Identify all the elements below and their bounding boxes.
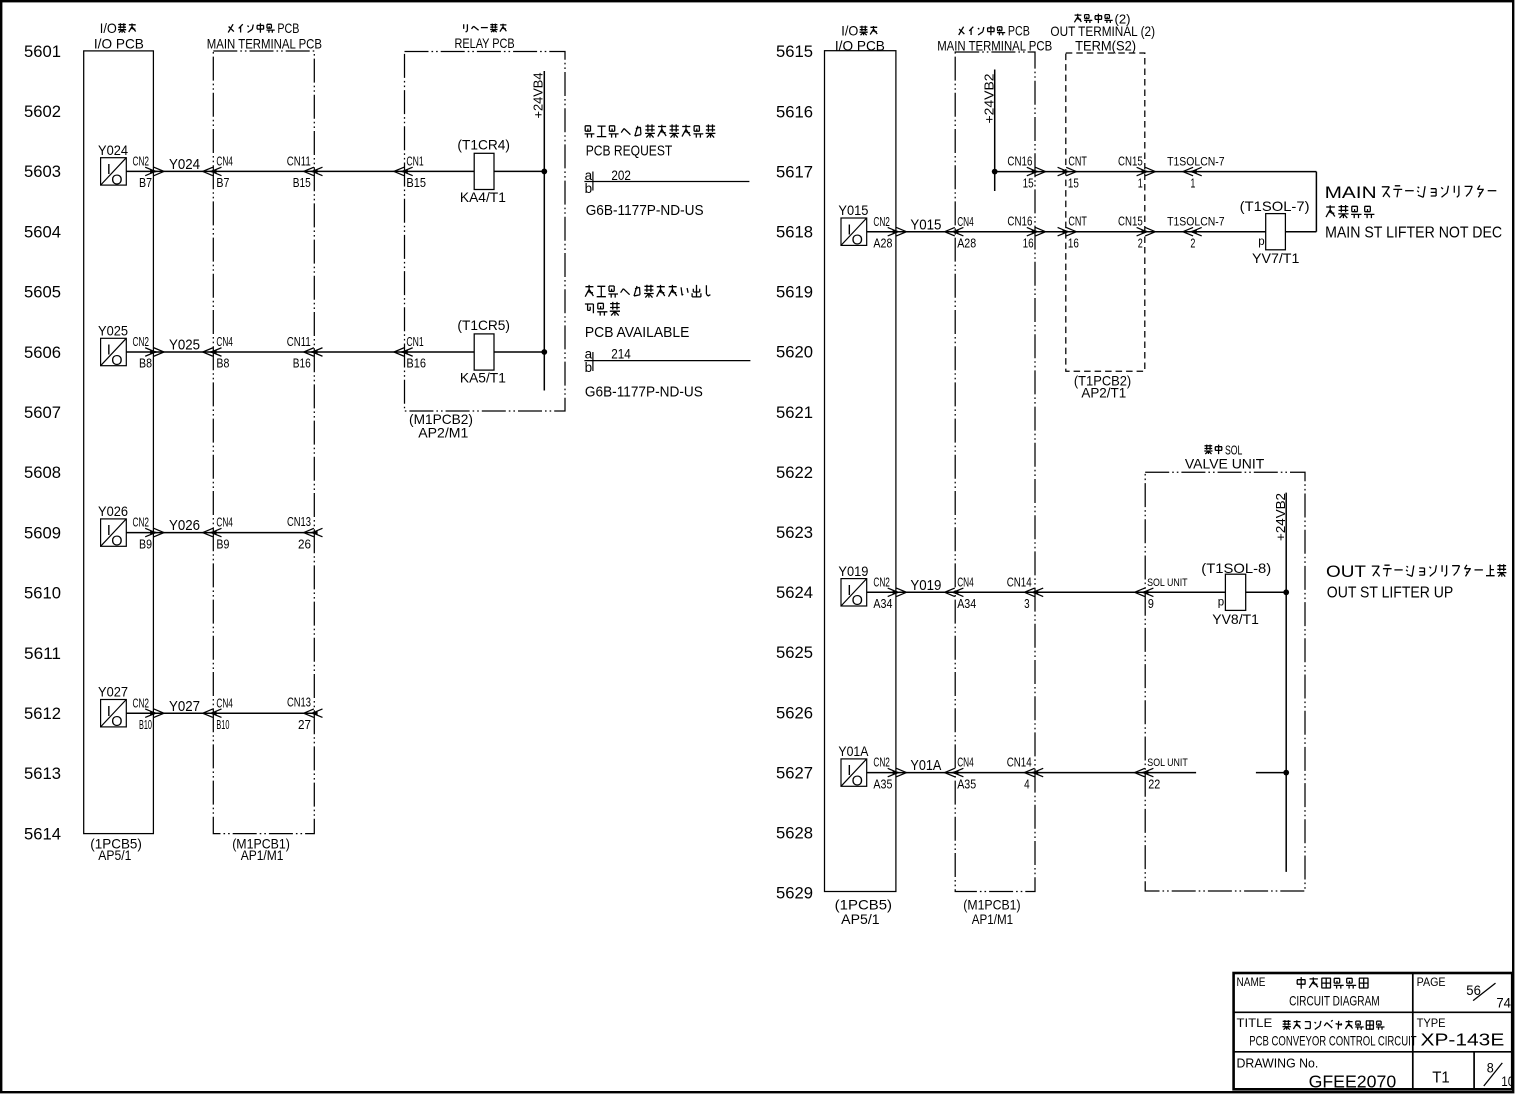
svg-text:p: p: [1218, 597, 1224, 609]
svg-text:AP1/M1: AP1/M1: [241, 847, 284, 863]
svg-text:5613: 5613: [24, 765, 61, 783]
svg-text:B9: B9: [139, 537, 152, 551]
svg-text:MAIN: MAIN: [1325, 183, 1377, 202]
connector CN16 pin 15: [1007, 155, 1045, 191]
svg-text:5619: 5619: [776, 284, 813, 302]
svg-text:PCB REQUEST: PCB REQUEST: [586, 143, 673, 160]
connector CN1 pin B15 (Y024): [394, 155, 426, 191]
title block DRAWING No. field: [1237, 1056, 1397, 1092]
svg-text:5618: 5618: [776, 224, 813, 242]
svg-text:MAIN TERMINAL PCB: MAIN TERMINAL PCB: [937, 37, 1052, 53]
svg-text:CN1: CN1: [406, 335, 423, 349]
svg-text:O: O: [111, 353, 122, 369]
svg-text:5626: 5626: [776, 704, 813, 722]
svg-text:2: 2: [1190, 236, 1195, 250]
svg-text:CN4: CN4: [957, 756, 974, 770]
svg-text:A35: A35: [957, 777, 976, 791]
net label Y026: [169, 517, 200, 534]
net label Y01A: [910, 757, 941, 774]
svg-text:XP-143E: XP-143E: [1421, 1029, 1505, 1049]
svg-text:5601: 5601: [24, 43, 61, 61]
svg-text:5628: 5628: [776, 825, 813, 843]
connector CN2 pin A35 (Y01A): [873, 756, 906, 792]
svg-text:1: 1: [1138, 176, 1143, 190]
svg-text:TITLE: TITLE: [1237, 1016, 1273, 1030]
title block sheet T1 field: [1432, 1069, 1450, 1086]
I/O output symbol Y019: [838, 563, 868, 609]
svg-text:74: 74: [1496, 995, 1511, 1010]
(M1PCB2) AP2/M1 board designator: [409, 411, 473, 441]
I/O output symbol Y025: [98, 323, 128, 369]
svg-text:Y025: Y025: [98, 323, 128, 339]
svg-text:5621: 5621: [776, 404, 813, 422]
svg-text:PCB: PCB: [277, 21, 299, 36]
svg-text:PAGE: PAGE: [1417, 975, 1446, 989]
svg-text:15: 15: [1023, 176, 1034, 190]
svg-text:A28: A28: [957, 236, 976, 250]
connector CN4 pin A35 (Y01A): [945, 756, 977, 792]
svg-text:CN15: CN15: [1118, 215, 1143, 229]
connector CNT pin 15 (row 5617): [1058, 155, 1088, 191]
svg-text:(T1SOL-7): (T1SOL-7): [1240, 198, 1310, 214]
svg-text:B7: B7: [139, 176, 152, 190]
svg-text:5615: 5615: [776, 43, 813, 61]
connector CN4 pin B9 (Y026): [203, 516, 233, 552]
svg-text:CN2: CN2: [873, 215, 890, 229]
svg-text:27: 27: [298, 718, 311, 732]
connector CN14 pin 4: [1007, 756, 1043, 792]
annotation MAIN ST LIFTER (Japanese line1): [1325, 183, 1497, 202]
title block PAGE field: [1417, 975, 1512, 1010]
svg-text:5623: 5623: [776, 524, 813, 542]
svg-text:OUT: OUT: [1326, 562, 1366, 581]
svg-text:5622: 5622: [776, 464, 813, 482]
I/O PCB header (right): [835, 23, 885, 54]
RELAY PCB box: [405, 52, 566, 412]
svg-text:PCB CONVEYOR CONTROL CIRCUIT: PCB CONVEYOR CONTROL CIRCUIT: [1249, 1033, 1417, 1049]
svg-text:+24VB4: +24VB4: [531, 73, 546, 119]
svg-text:CN2: CN2: [873, 756, 890, 770]
svg-text:26: 26: [298, 537, 311, 551]
(1PCB5) AP5/1 board designator (left): [90, 835, 142, 863]
svg-text:YV7/T1: YV7/T1: [1252, 250, 1300, 266]
svg-text:A34: A34: [873, 597, 892, 611]
svg-text:Y01A: Y01A: [910, 757, 941, 774]
svg-text:1: 1: [1190, 176, 1195, 190]
svg-text:PCB: PCB: [1008, 24, 1030, 39]
svg-text:VALVE UNIT: VALVE UNIT: [1185, 456, 1265, 472]
svg-text:T1: T1: [1432, 1069, 1450, 1086]
power rail +24VB4: [531, 71, 546, 391]
svg-text:10: 10: [1501, 1074, 1514, 1089]
svg-text:CNT: CNT: [1068, 215, 1087, 229]
connector CN4 pin B10 (Y027): [203, 696, 233, 732]
svg-text:5603: 5603: [24, 163, 61, 181]
I/O PCB header (left): [94, 20, 144, 51]
svg-text:5625: 5625: [776, 644, 813, 662]
svg-text:B15: B15: [406, 176, 426, 190]
svg-text:CN14: CN14: [1007, 575, 1032, 589]
annotation MAIN ST LIFTER (Japanese line2): [1326, 205, 1374, 218]
annotation OUT ST LIFTER UP (Japanese): [1326, 562, 1506, 581]
wire Y019 row 5624: [867, 591, 1286, 593]
net label Y015: [910, 216, 941, 233]
connector CN4 pin B8 (Y025): [203, 335, 233, 371]
net label Y019: [910, 577, 941, 594]
svg-text:p: p: [1258, 236, 1264, 248]
svg-text:5611: 5611: [24, 645, 61, 663]
relay coil KA4/T1 (T1CR4): [457, 137, 510, 206]
svg-text:G6B-1177P-ND-US: G6B-1177P-ND-US: [586, 202, 704, 219]
svg-text:B10: B10: [139, 718, 152, 732]
junction node +24VB4 / KA4/T1: [541, 169, 547, 175]
svg-text:b: b: [585, 181, 593, 196]
svg-text:T1SOLCN-7: T1SOLCN-7: [1167, 215, 1225, 229]
svg-text:CN4: CN4: [957, 215, 974, 229]
svg-text:202: 202: [611, 167, 631, 183]
svg-text:PCB AVAILABLE: PCB AVAILABLE: [585, 324, 690, 341]
svg-text:CN11: CN11: [287, 335, 311, 349]
junction node +24VB2 / row 5617: [992, 169, 998, 175]
svg-text:CN16: CN16: [1007, 215, 1032, 229]
svg-text:22: 22: [1148, 778, 1160, 792]
annotation OUT ST LIFTER UP: [1327, 585, 1454, 602]
svg-text:B16: B16: [293, 357, 311, 371]
svg-text:+24VB2: +24VB2: [1273, 493, 1288, 541]
relay coil KA5/T1 (T1CR5): [457, 317, 510, 386]
svg-text:OUT ST LIFTER UP: OUT ST LIFTER UP: [1327, 585, 1454, 602]
svg-text:Y01A: Y01A: [838, 743, 869, 759]
title block TITLE field: [1237, 1016, 1417, 1049]
svg-text:2: 2: [1138, 236, 1143, 250]
I/O output symbol Y026: [98, 503, 128, 549]
svg-text:5617: 5617: [776, 163, 813, 181]
annotation PCB AVAILABLE (Japanese line2): [585, 302, 620, 316]
wire Y026 row 5609: [126, 532, 314, 534]
connector CN4 pin A28 (Y015): [945, 215, 977, 251]
annotation PCB REQUEST: [586, 143, 673, 160]
connector SOL UNIT pin 9: [1135, 577, 1188, 611]
svg-text:B9: B9: [216, 537, 229, 551]
I/O output symbol Y015: [838, 202, 868, 248]
svg-text:I/O PCB: I/O PCB: [94, 35, 144, 51]
wire row 5617 (T1SOL-7 coil feed): [995, 172, 1317, 232]
svg-text:CN4: CN4: [216, 155, 233, 169]
svg-text:CNT: CNT: [1068, 155, 1087, 169]
I/O output symbol Y01A: [838, 743, 869, 789]
solenoid valve YV7/T1 (T1SOL-7): [1240, 198, 1310, 266]
svg-text:O: O: [111, 714, 122, 730]
svg-text:5605: 5605: [24, 284, 61, 302]
VALVE UNIT box: [1145, 472, 1305, 891]
svg-text:16: 16: [1023, 236, 1034, 250]
svg-text:DRAWING No.: DRAWING No.: [1237, 1056, 1319, 1071]
svg-text:AP5/1: AP5/1: [98, 847, 131, 863]
svg-text:MAIN ST LIFTER NOT DEC: MAIN ST LIFTER NOT DEC: [1325, 225, 1502, 242]
contact reference 202 line a/b: [584, 167, 749, 196]
svg-text:Y026: Y026: [98, 503, 128, 519]
svg-text:CN4: CN4: [216, 516, 233, 530]
junction node +24VB4 / KA5/T1: [541, 349, 547, 355]
svg-text:A28: A28: [873, 236, 892, 250]
svg-text:9: 9: [1148, 597, 1154, 611]
svg-text:NAME: NAME: [1237, 975, 1266, 989]
svg-text:CN2: CN2: [133, 696, 150, 710]
svg-text:CIRCUIT DIAGRAM: CIRCUIT DIAGRAM: [1289, 992, 1380, 1008]
svg-text:I/O: I/O: [841, 23, 858, 39]
svg-text:CN14: CN14: [1007, 756, 1032, 770]
RELAY PCB header: [455, 24, 515, 51]
svg-text:(T1CR5): (T1CR5): [457, 317, 510, 333]
svg-text:A35: A35: [873, 777, 892, 791]
svg-text:A34: A34: [957, 597, 976, 611]
svg-text:Y015: Y015: [910, 216, 941, 233]
svg-text:SOL UNIT: SOL UNIT: [1147, 757, 1188, 769]
svg-text:MAIN TERMINAL PCB: MAIN TERMINAL PCB: [207, 35, 322, 51]
svg-text:Y025: Y025: [169, 337, 200, 354]
svg-text:KA4/T1: KA4/T1: [460, 189, 506, 205]
connector CN13 pin 27 (Y027): [287, 696, 323, 732]
svg-text:AP2/T1: AP2/T1: [1081, 385, 1126, 401]
svg-text:O: O: [111, 172, 122, 188]
svg-text:Y024: Y024: [169, 156, 200, 173]
svg-text:CN4: CN4: [216, 696, 233, 710]
svg-text:B7: B7: [216, 176, 229, 190]
svg-text:GFEE2070: GFEE2070: [1309, 1071, 1397, 1091]
svg-text:CN2: CN2: [133, 516, 150, 530]
net label Y027: [169, 698, 200, 715]
svg-text:B15: B15: [293, 176, 311, 190]
svg-text:B10: B10: [216, 718, 229, 732]
contact reference 214 line a/b: [584, 346, 750, 376]
svg-text:15: 15: [1068, 176, 1079, 190]
connector CN2 pin A28 (Y015): [873, 215, 906, 251]
svg-text:SOL UNIT: SOL UNIT: [1147, 577, 1188, 589]
connector CN4 pin A34 (Y019): [945, 575, 977, 611]
svg-text:Y019: Y019: [910, 577, 941, 594]
svg-text:I/O PCB: I/O PCB: [835, 37, 885, 53]
svg-text:3: 3: [1024, 597, 1030, 611]
svg-text:5616: 5616: [776, 103, 813, 121]
svg-text:214: 214: [611, 346, 631, 362]
svg-text:5610: 5610: [24, 585, 61, 603]
I/O output symbol Y024: [98, 142, 128, 188]
svg-text:5607: 5607: [24, 404, 61, 422]
solenoid valve YV8/T1 (T1SOL-8): [1201, 560, 1271, 627]
svg-text:CN4: CN4: [216, 335, 233, 349]
svg-text:CN11: CN11: [287, 155, 311, 169]
svg-text:B8: B8: [139, 357, 152, 371]
connector CN16 pin 16: [1007, 215, 1045, 251]
connector CN2 pin B7 (Y024): [133, 155, 165, 191]
MAIN TERMINAL PCB header (right): [937, 24, 1052, 54]
(M1PCB1) AP1/M1 board designator (left): [232, 835, 290, 863]
svg-text:YV8/T1: YV8/T1: [1212, 611, 1259, 627]
svg-text:AP1/M1: AP1/M1: [972, 911, 1013, 927]
annotation PCB AVAILABLE: [585, 324, 690, 341]
connector CN15 pin 2: [1118, 215, 1155, 251]
connector CNT pin 16: [1058, 215, 1088, 251]
(1PCB5) AP5/1 board designator (right): [835, 897, 892, 928]
net label Y024: [169, 156, 200, 173]
svg-text:B16: B16: [406, 357, 426, 371]
svg-text:5606: 5606: [24, 344, 61, 362]
svg-text:Y019: Y019: [838, 563, 868, 579]
VALVE UNIT header: [1185, 442, 1265, 471]
title block NAME field: [1237, 975, 1380, 1008]
svg-text:Y027: Y027: [98, 684, 128, 700]
annotation MAIN ST LIFTER NOT DEC: [1325, 225, 1502, 242]
annotation PCB REQUEST (Japanese): [585, 124, 716, 137]
svg-text:CN2: CN2: [133, 155, 150, 169]
(M1PCB1) AP1/M1 board designator (right): [963, 897, 1020, 928]
connector CN2 pin B9 (Y026): [133, 516, 165, 552]
junction node +24VB2 / YV8: [1283, 589, 1289, 595]
svg-text:O: O: [111, 534, 122, 550]
connector CN13 pin 26 (Y026): [287, 515, 323, 551]
connector CN11 pin B16 (Y025): [287, 335, 323, 371]
svg-text:CN15: CN15: [1118, 155, 1143, 169]
wire Y015 row 5618: [867, 231, 1317, 233]
svg-text:CN13: CN13: [287, 696, 311, 710]
svg-text:b: b: [585, 360, 593, 375]
svg-text:CN4: CN4: [957, 575, 974, 589]
connector CN14 pin 3: [1007, 575, 1043, 611]
svg-text:+24VB2: +24VB2: [982, 74, 997, 124]
svg-text:AP2/M1: AP2/M1: [418, 425, 468, 441]
wire Y025 row 5606: [126, 351, 544, 353]
svg-text:CN1: CN1: [406, 155, 423, 169]
MAIN TERMINAL PCB header (left): [207, 21, 322, 51]
svg-text:TERM(S2): TERM(S2): [1075, 37, 1136, 53]
MAIN TERMINAL PCB box (right): [955, 52, 1035, 892]
svg-text:O: O: [852, 233, 863, 249]
connector T1SOLCN-7 pin 2: [1167, 215, 1225, 251]
svg-text:CN2: CN2: [133, 335, 150, 349]
svg-text:T1SOLCN-7: T1SOLCN-7: [1167, 155, 1225, 169]
connector CN11 pin B15 (Y024): [287, 155, 323, 191]
svg-text:CN2: CN2: [873, 575, 890, 589]
net label Y025: [169, 337, 200, 354]
svg-text:CN16: CN16: [1007, 155, 1032, 169]
connector CN15 pin 1: [1118, 155, 1155, 191]
title block TYPE field: [1417, 1016, 1505, 1049]
OUT TERMINAL (2) TERM(S2) box: [1066, 53, 1145, 371]
svg-text:O: O: [852, 593, 863, 609]
power rail +24VB2 (valve unit): [1273, 493, 1288, 872]
svg-text:Y024: Y024: [98, 142, 128, 158]
svg-text:5614: 5614: [24, 825, 61, 843]
connector CN4 pin B7 (Y024): [203, 155, 233, 191]
power rail +24VB2 (main terminal): [982, 70, 997, 192]
svg-text:8: 8: [1487, 1061, 1494, 1076]
connector CN2 pin B10 (Y027): [133, 696, 165, 732]
annotation relay part number G6B-1177P-ND-US (2): [585, 384, 703, 401]
svg-text:5602: 5602: [24, 103, 61, 121]
svg-text:Y026: Y026: [169, 517, 200, 534]
svg-text:AP5/1: AP5/1: [841, 911, 880, 927]
(T1PCB2) AP2/T1 board designator: [1074, 373, 1131, 401]
MAIN TERMINAL PCB box (left): [213, 51, 314, 834]
svg-text:O: O: [852, 774, 863, 790]
svg-text:KA5/T1: KA5/T1: [460, 370, 506, 386]
title block sheet 8/10 field: [1484, 1061, 1515, 1089]
wire Y01A row 5627: [867, 772, 1286, 774]
junction node +24VB2 / row 5627: [1283, 770, 1289, 776]
connector CN2 pin A34 (Y019): [873, 575, 906, 611]
svg-text:(T1SOL-8): (T1SOL-8): [1201, 560, 1271, 576]
svg-text:TYPE: TYPE: [1417, 1016, 1446, 1030]
annotation PCB AVAILABLE (Japanese line1): [585, 285, 710, 298]
svg-text:G6B-1177P-ND-US: G6B-1177P-ND-US: [585, 384, 703, 401]
svg-text:5608: 5608: [24, 464, 61, 482]
svg-text:5627: 5627: [776, 764, 813, 782]
I/O PCB board box (right): [825, 51, 896, 892]
svg-text:I/O: I/O: [100, 20, 117, 36]
svg-text:5604: 5604: [24, 223, 61, 241]
connector SOL UNIT pin 22: [1135, 757, 1188, 791]
wire Y024 row 5603: [126, 170, 544, 172]
svg-text:4: 4: [1024, 777, 1030, 791]
svg-text:CN13: CN13: [287, 515, 311, 529]
svg-text:5629: 5629: [776, 885, 813, 903]
svg-text:RELAY PCB: RELAY PCB: [455, 35, 515, 51]
svg-text:B8: B8: [216, 357, 229, 371]
annotation relay part number G6B-1177P-ND-US (1): [586, 202, 704, 219]
I/O output symbol Y027: [98, 684, 128, 730]
svg-text:16: 16: [1068, 236, 1079, 250]
connector T1SOLCN-7 pin 1: [1167, 155, 1225, 191]
svg-text:5624: 5624: [776, 584, 813, 602]
OUT TERMINAL header: [1050, 11, 1155, 53]
svg-text:(T1CR4): (T1CR4): [457, 137, 510, 153]
svg-text:Y015: Y015: [838, 202, 868, 218]
I/O PCB board box (left): [84, 51, 154, 834]
svg-text:5620: 5620: [776, 344, 813, 362]
connector CN1 pin B16 (Y025): [394, 335, 426, 371]
svg-text:5612: 5612: [24, 705, 61, 723]
connector CN2 pin B8 (Y025): [133, 335, 165, 371]
title block frame: [1234, 973, 1513, 1089]
svg-text:Y027: Y027: [169, 698, 200, 715]
wire Y027 row 5612: [126, 712, 314, 714]
svg-text:5609: 5609: [24, 524, 61, 542]
